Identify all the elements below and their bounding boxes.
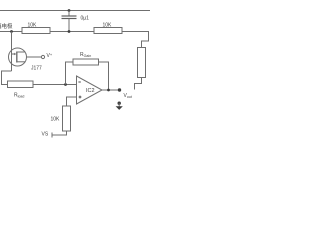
node feedback junction on output (107, 89, 110, 92)
resistor R2 10K box (94, 28, 122, 34)
transistor Q1 source lead (17, 61, 25, 63)
svg-text:RGain: RGain (80, 52, 91, 58)
ground symbol (116, 106, 123, 110)
svg-text:IC2: IC2 (86, 88, 95, 94)
terminal ground dot (118, 102, 121, 105)
node inverting input junction (64, 83, 67, 86)
terminal VS tick (51, 133, 53, 138)
svg-text:10K: 10K (28, 23, 38, 29)
svg-text:Vout: Vout (124, 93, 132, 99)
svg-text:J177: J177 (31, 66, 42, 72)
svg-text:VS: VS (42, 132, 49, 138)
wire top rail V+ (0, 10, 150, 12)
capacitor C1 lead top (68, 11, 70, 17)
resistor Rload box (8, 81, 34, 88)
node electrode input (10, 30, 13, 33)
wire op-amp output (102, 89, 120, 91)
wire op-amp noninverting input (67, 97, 77, 106)
terminal Vout filled dot (118, 88, 121, 91)
transistor Q1 gate branch (12, 53, 16, 55)
wire mid rail right (122, 32, 149, 48)
wire R4 to VS terminal (52, 131, 67, 135)
transistor Q1 J177 gate wire (11, 32, 13, 72)
svg-text:10K: 10K (51, 117, 61, 123)
node capacitor bottom junction (68, 30, 71, 33)
label op-amp minus (78, 81, 80, 83)
ground stem (118, 103, 120, 106)
capacitor C1 plates (62, 15, 77, 17)
wire Q1 to V+ terminal (27, 56, 42, 58)
wire Rload to op-amp inverting input (33, 84, 77, 86)
svg-text:10K: 10K (103, 23, 113, 29)
resistor R1 10K box (22, 28, 50, 34)
terminal V+ open circle (41, 55, 44, 58)
resistor R3 vertical box right (138, 48, 146, 78)
svg-text:V+: V+ (47, 52, 53, 59)
svg-text:璃电极: 璃电极 (0, 22, 13, 30)
transistor Q1 drain lead (17, 51, 26, 53)
wire RGain left lead (66, 62, 74, 85)
op-amp U1 triangle (77, 76, 103, 104)
transistor Q1 circle (9, 48, 27, 66)
wire R3 bottom lead (135, 78, 142, 90)
wire electrode node to Rload (2, 71, 12, 85)
node top rail / capacitor junction (68, 9, 71, 12)
transistor Q1 channel bar (16, 52, 18, 63)
label op-amp plus (79, 96, 82, 98)
svg-text:0µ1: 0µ1 (81, 16, 90, 22)
resistor R4 10K vertical box (63, 106, 71, 131)
resistor RGain box (73, 59, 99, 65)
wire mid rail left (0, 31, 22, 33)
transistor Q1 gate arrow (14, 53, 17, 55)
wire RGain right lead to output (99, 62, 109, 90)
svg-text:Rload: Rload (14, 93, 24, 99)
capacitor C1 lead bottom (68, 19, 70, 32)
wire mid rail center (50, 31, 94, 33)
